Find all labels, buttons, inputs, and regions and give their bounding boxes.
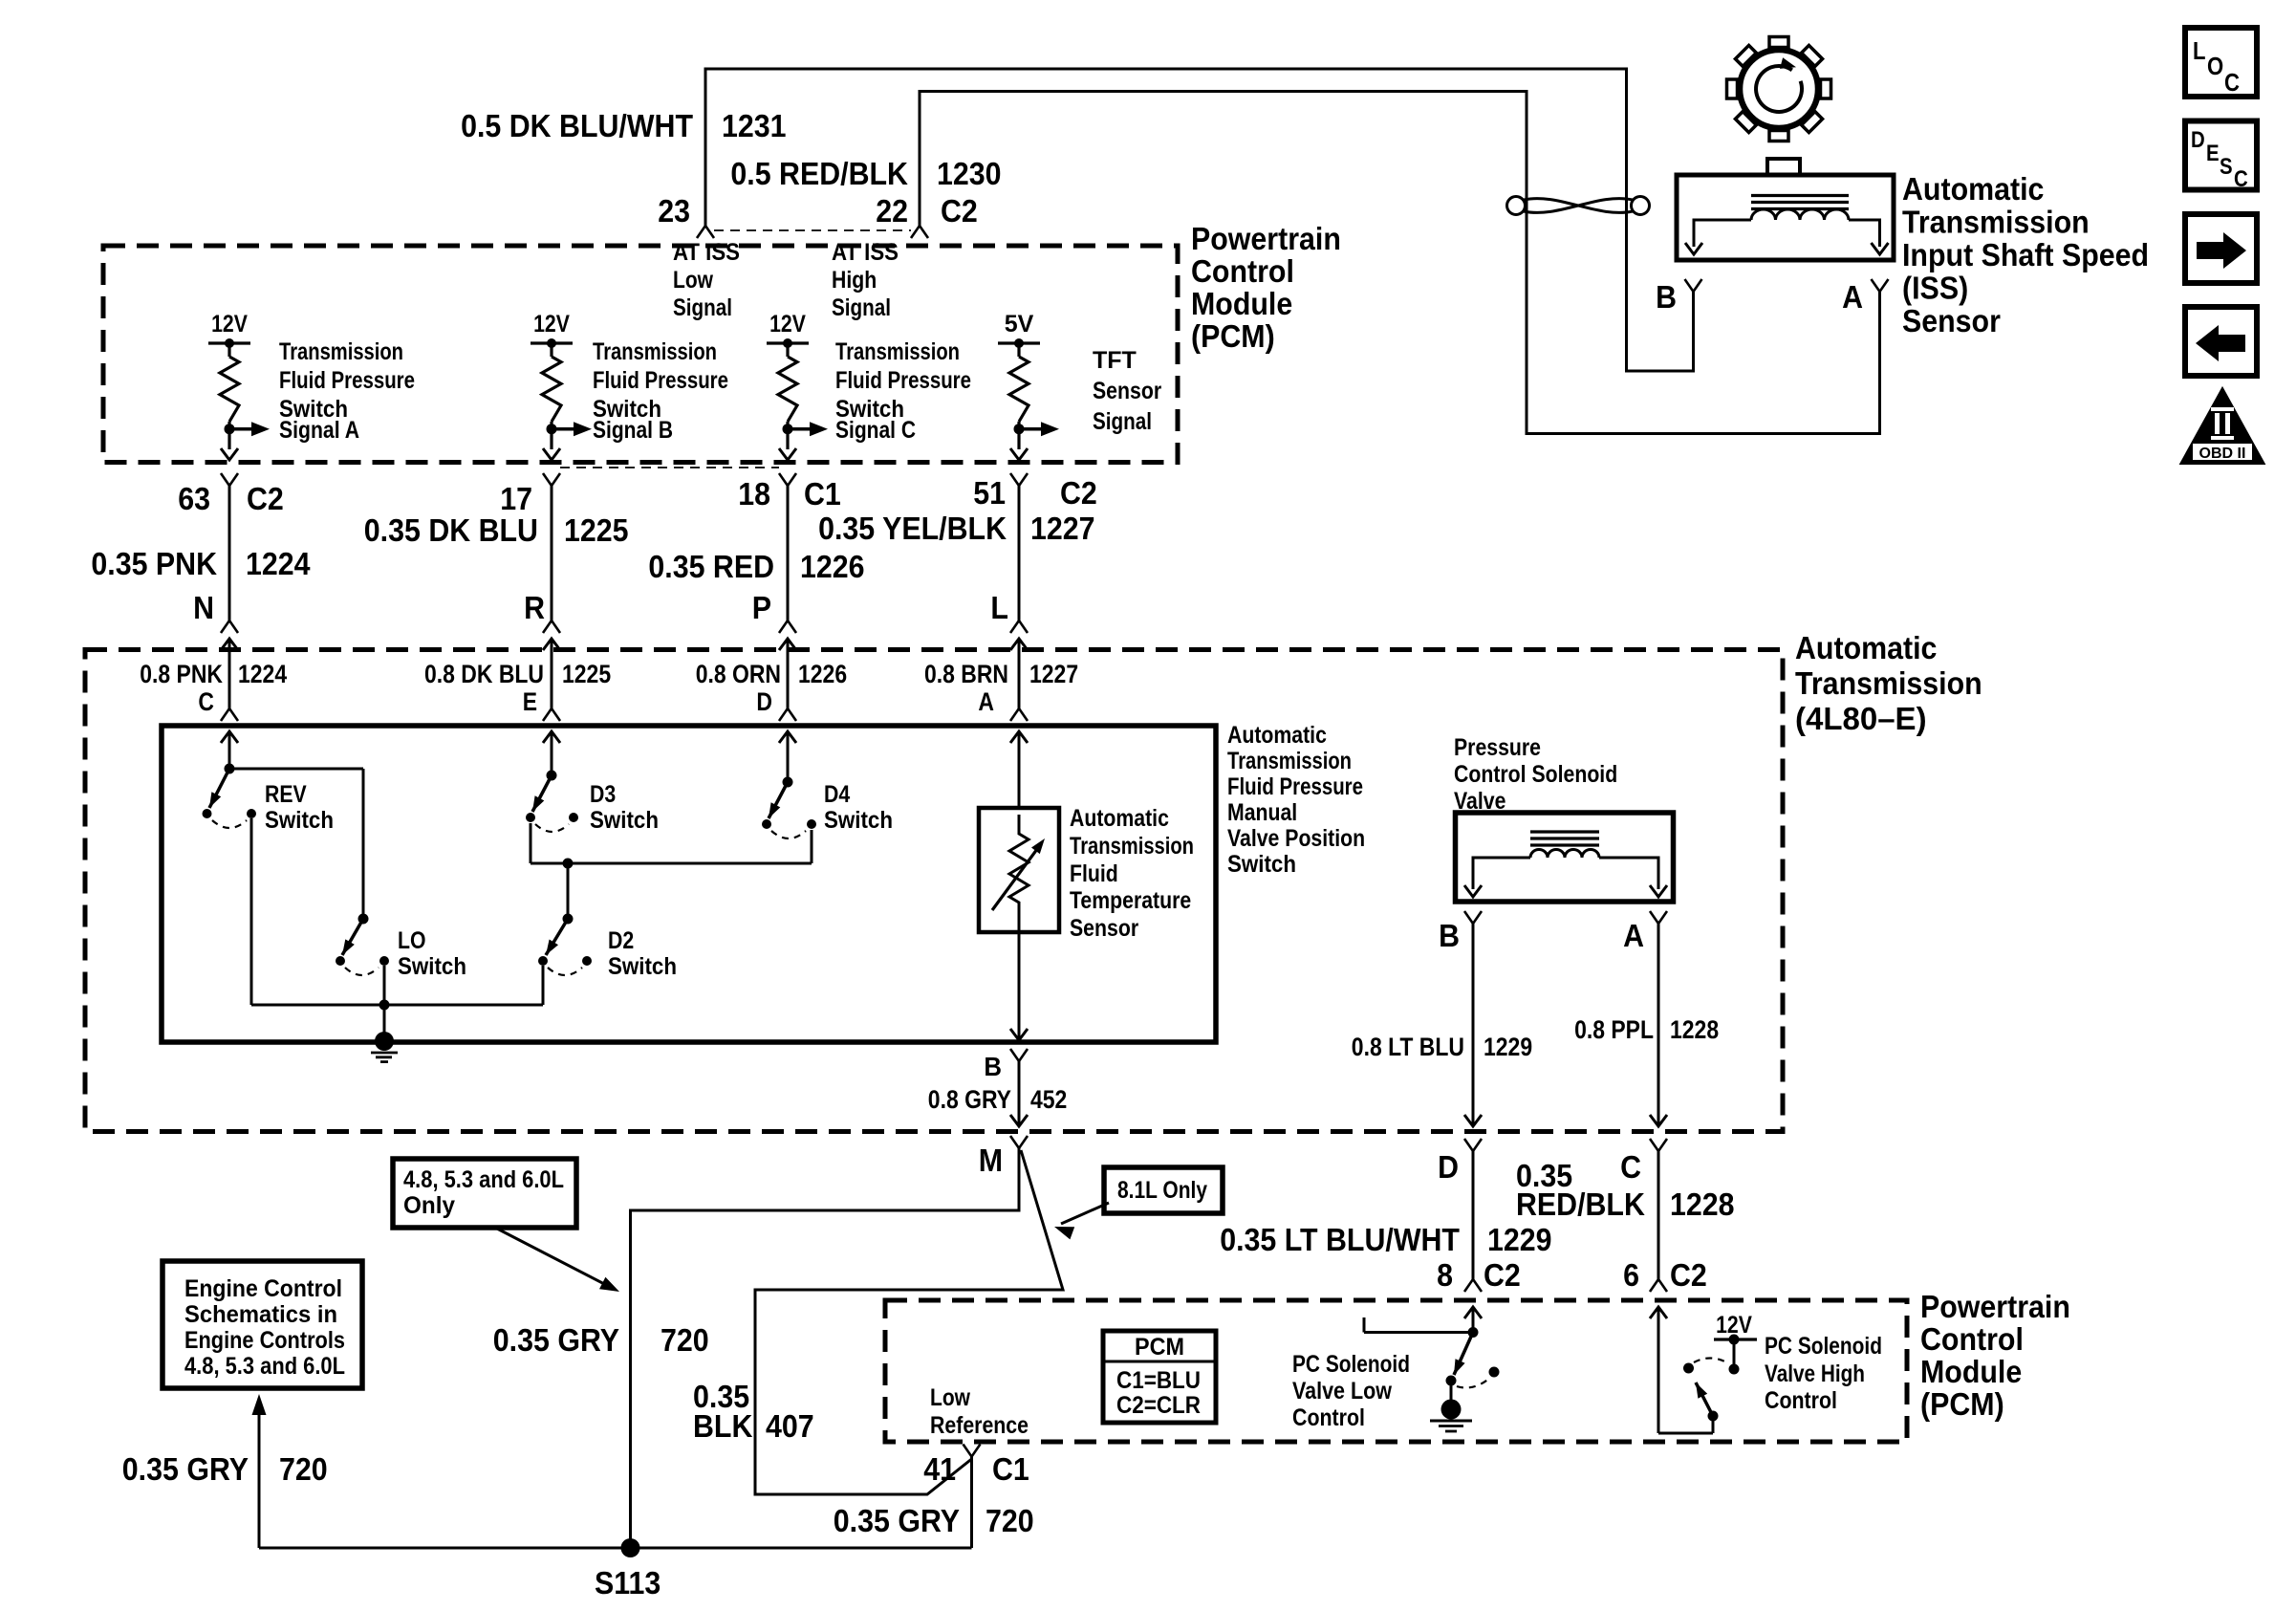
svg-text:M: M (979, 1143, 1003, 1178)
svg-text:BLK: BLK (693, 1408, 753, 1444)
icon arrow right (2185, 214, 2257, 283)
Automatic Transmission (4L80-E) box (85, 650, 1783, 1132)
svg-text:Transmission: Transmission (1227, 748, 1352, 774)
svg-text:High: High (832, 267, 877, 294)
svg-text:0.35 GRY: 0.35 GRY (493, 1322, 619, 1358)
connector arrow into transmission (221, 639, 238, 650)
svg-text:(ISS): (ISS) (1902, 271, 1968, 306)
svg-text:Module: Module (1920, 1354, 2022, 1389)
connector fork pin 23 (697, 226, 714, 238)
ground G2 (PCM) (1441, 1400, 1462, 1420)
PCSV core bars (1530, 830, 1599, 833)
svg-text:0.5 DK BLU/WHT: 0.5 DK BLU/WHT (461, 108, 693, 143)
svg-text:Automatic: Automatic (1070, 805, 1169, 832)
svg-text:12V: 12V (211, 311, 248, 337)
wire D2 contact down (542, 966, 545, 1005)
connector fork C (1650, 1139, 1667, 1151)
svg-text:0.35 YEL/BLK: 0.35 YEL/BLK (818, 511, 1007, 546)
svg-text:L: L (2193, 36, 2206, 65)
svg-text:AT ISS: AT ISS (673, 239, 740, 266)
svg-text:1229: 1229 (1484, 1033, 1532, 1061)
svg-text:12V: 12V (769, 311, 806, 337)
svg-text:Engine Control: Engine Control (184, 1275, 342, 1302)
connector arrow inside switch box (543, 731, 560, 743)
svg-text:407: 407 (766, 1408, 814, 1444)
svg-text:Transmission: Transmission (1070, 833, 1194, 860)
wire 0.8 GRY 452 (1018, 1061, 1021, 1126)
svg-text:P: P (752, 590, 771, 625)
ISS sensor coil L1 (1751, 209, 1849, 220)
svg-text:Signal: Signal (832, 294, 891, 321)
svg-text:Only: Only (403, 1192, 455, 1219)
svg-text:Automatic: Automatic (1902, 171, 2044, 207)
PCM connector legend box (1103, 1331, 1216, 1423)
junction dot D3 bus (563, 859, 574, 869)
wire bus to D2 (567, 863, 570, 919)
svg-text:N: N (193, 590, 214, 625)
svg-text:1226: 1226 (798, 660, 847, 688)
svg-text:RED/BLK: RED/BLK (1516, 1186, 1645, 1222)
svg-text:0.8 DK BLU: 0.8 DK BLU (424, 660, 544, 688)
svg-text:1227: 1227 (1029, 660, 1078, 688)
svg-text:Sensor: Sensor (1093, 378, 1161, 404)
svg-text:Automatic: Automatic (1227, 722, 1327, 749)
wire 41 to S113 (970, 1457, 973, 1549)
wire D to PCM (1472, 1151, 1475, 1279)
svg-text:Valve Low: Valve Low (1292, 1378, 1392, 1404)
connector pins 17 / N-row wire (543, 473, 560, 486)
svg-text:B: B (1656, 279, 1677, 315)
wire TFT to box bottom (1018, 925, 1021, 1040)
junction dot bottom bus (379, 1000, 390, 1011)
ISS sensor magnet stub (1767, 159, 1800, 175)
svg-text:Module: Module (1191, 286, 1292, 321)
svg-text:0.8 ORN: 0.8 ORN (696, 660, 781, 688)
svg-text:1227: 1227 (1030, 511, 1095, 546)
svg-text:720: 720 (986, 1503, 1034, 1538)
icon arrow left (2185, 307, 2257, 376)
svg-text:Switch: Switch (398, 953, 466, 980)
svg-text:A: A (1623, 918, 1644, 953)
svg-text:1230: 1230 (937, 156, 1002, 191)
svg-text:Control Solenoid: Control Solenoid (1454, 761, 1617, 788)
arrow from 4.8 note box (497, 1229, 612, 1288)
wire TFT top (1018, 731, 1021, 808)
twisted pair symbol (1507, 197, 1526, 215)
wire M to 41 C1 (8.1L only path) (755, 1150, 1063, 1494)
svg-text:4.8, 5.3 and 6.0L: 4.8, 5.3 and 6.0L (184, 1353, 345, 1380)
connector fork PCSV B (1464, 911, 1482, 924)
wire M to S113 (0.35 GRY 720) (631, 1148, 1020, 1548)
svg-text:S113: S113 (595, 1565, 661, 1600)
svg-text:A: A (1842, 279, 1863, 315)
svg-text:Low: Low (673, 267, 713, 294)
svg-text:1228: 1228 (1670, 1015, 1719, 1044)
svg-text:Signal C: Signal C (835, 417, 916, 444)
svg-text:Fluid Pressure: Fluid Pressure (1227, 773, 1363, 800)
svg-text:0.35 GRY: 0.35 GRY (834, 1503, 960, 1538)
svg-text:D2: D2 (608, 927, 634, 954)
svg-text:Transmission: Transmission (593, 338, 717, 365)
svg-text:Fluid: Fluid (1070, 860, 1118, 887)
svg-text:Reference: Reference (930, 1412, 1029, 1439)
svg-text:1231: 1231 (722, 108, 787, 143)
svg-text:0.35 RED: 0.35 RED (648, 549, 774, 584)
svg-text:1225: 1225 (562, 660, 611, 688)
svg-text:D: D (2191, 127, 2205, 153)
thin dashed connector line C2 (pins 23-22) (714, 229, 911, 231)
svg-text:Signal: Signal (673, 294, 732, 321)
connector arrow inside switch box (221, 731, 238, 743)
svg-text:0.5 RED/BLK: 0.5 RED/BLK (730, 156, 908, 191)
splice S113 (621, 1538, 640, 1557)
svg-text:Valve Position: Valve Position (1227, 825, 1365, 852)
switch PC solenoid valve high control (1714, 1338, 1757, 1340)
svg-text:720: 720 (661, 1322, 709, 1358)
svg-text:Powertrain: Powertrain (1191, 221, 1341, 256)
PCSV leads (1473, 858, 1530, 889)
svg-text:Control: Control (1292, 1404, 1365, 1431)
switch REV (228, 731, 231, 769)
svg-text:(PCM): (PCM) (1920, 1386, 2004, 1422)
note box Engine Control Schematics (162, 1261, 362, 1388)
svg-text:4.8, 5.3 and 6.0L: 4.8, 5.3 and 6.0L (403, 1166, 564, 1193)
wire S113 bus (259, 1547, 972, 1550)
svg-text:1224: 1224 (238, 660, 287, 688)
connector fork B (TFT out) (1010, 1049, 1028, 1061)
svg-text:8: 8 (1437, 1257, 1453, 1293)
wire REV junction to LO (229, 768, 363, 771)
svg-text:51: 51 (973, 475, 1006, 511)
svg-text:1224: 1224 (246, 546, 311, 581)
svg-text:C2: C2 (247, 481, 284, 516)
note box 8.1L Only (1104, 1167, 1223, 1213)
svg-text:41: 41 (923, 1451, 956, 1487)
wire D4 contact down (811, 830, 813, 863)
svg-text:0.35 PNK: 0.35 PNK (91, 546, 217, 581)
svg-text:Temperature: Temperature (1070, 887, 1191, 914)
svg-text:OBD II: OBD II (2199, 446, 2246, 462)
svg-text:C2: C2 (1484, 1257, 1521, 1293)
svg-text:0.8 LT BLU: 0.8 LT BLU (1352, 1033, 1464, 1061)
svg-text:TFT: TFT (1093, 347, 1137, 374)
svg-text:Control: Control (1920, 1321, 2024, 1357)
svg-text:C1=BLU: C1=BLU (1116, 1367, 1201, 1394)
wire low control to ground (1450, 1385, 1453, 1404)
PCM bottom box (Powertrain Control Module) (885, 1300, 1907, 1442)
svg-text:452: 452 (1030, 1085, 1067, 1114)
svg-text:S: S (2220, 154, 2233, 180)
svg-text:12V: 12V (533, 311, 570, 337)
switch D2 (563, 914, 574, 925)
connector fork pin 22 (911, 226, 928, 238)
svg-text:E: E (2206, 141, 2220, 166)
connector pins 51 / N-row wire (1010, 473, 1028, 486)
svg-text:Fluid Pressure: Fluid Pressure (593, 367, 728, 394)
svg-text:Signal A: Signal A (279, 417, 359, 444)
svg-text:0.8 PPL: 0.8 PPL (1574, 1015, 1654, 1044)
switch D4 (787, 731, 790, 782)
svg-text:C: C (198, 687, 214, 716)
svg-text:Switch: Switch (824, 807, 893, 834)
PCSV coil L2 (1530, 850, 1599, 859)
ground G1 (375, 1032, 394, 1051)
ISS sensor internal leads (1694, 220, 1751, 247)
svg-text:O: O (2207, 52, 2223, 80)
svg-text:L: L (990, 590, 1008, 625)
manual valve position switch box (162, 726, 1216, 1042)
svg-text:1225: 1225 (564, 512, 629, 548)
svg-text:A: A (978, 687, 994, 716)
svg-text:Transmission: Transmission (1902, 205, 2090, 240)
svg-text:B: B (1439, 918, 1460, 953)
svg-text:0.35 DK BLU: 0.35 DK BLU (364, 512, 538, 548)
tone wheel (gear icon) (1740, 50, 1818, 128)
connector arrow into transmission (779, 639, 796, 650)
wire D3 contact to bus (530, 823, 532, 863)
svg-text:Valve High: Valve High (1765, 1361, 1865, 1387)
svg-text:D: D (756, 687, 772, 716)
svg-text:LO: LO (398, 927, 426, 954)
svg-text:63: 63 (178, 481, 210, 516)
svg-text:C2: C2 (1060, 475, 1097, 511)
connector fork D (1464, 1139, 1482, 1151)
svg-text:Input Shaft Speed: Input Shaft Speed (1902, 237, 2149, 272)
switch LO (358, 914, 369, 925)
thin dashed connector line C1 (pins 17-18) (560, 467, 779, 468)
svg-text:0.8 BRN: 0.8 BRN (924, 660, 1008, 688)
svg-text:Engine Controls: Engine Controls (184, 1327, 345, 1354)
arrow from 8.1L note box (1061, 1203, 1109, 1224)
svg-text:E: E (523, 687, 537, 716)
svg-text:Switch: Switch (265, 807, 334, 834)
svg-text:1228: 1228 (1670, 1186, 1735, 1222)
wire LO contact down (383, 966, 386, 1005)
svg-text:Switch: Switch (1227, 851, 1296, 878)
svg-text:C2: C2 (941, 193, 978, 229)
connector arrow inside switch box (1010, 731, 1028, 743)
svg-text:Schematics in: Schematics in (184, 1301, 337, 1328)
svg-text:17: 17 (500, 481, 532, 516)
svg-text:Switch: Switch (608, 953, 677, 980)
svg-text:Powertrain: Powertrain (1920, 1289, 2070, 1324)
svg-text:C2=CLR: C2=CLR (1116, 1392, 1201, 1419)
svg-text:Fluid Pressure: Fluid Pressure (279, 367, 415, 394)
svg-text:PCM: PCM (1135, 1334, 1184, 1361)
svg-text:D4: D4 (824, 781, 850, 808)
svg-text:22: 22 (876, 193, 908, 229)
wire C to PCM (1657, 1151, 1660, 1279)
connector fork ISS B (1685, 279, 1702, 292)
ISS sensor core bars (1751, 194, 1849, 197)
svg-text:Automatic: Automatic (1795, 630, 1937, 665)
svg-text:23: 23 (658, 193, 690, 229)
svg-text:AT ISS: AT ISS (832, 239, 899, 266)
switch D3 (551, 731, 553, 775)
svg-text:1229: 1229 (1487, 1222, 1552, 1257)
svg-text:Fluid Pressure: Fluid Pressure (835, 367, 971, 394)
wire 0.8 PPL 1228 (1657, 924, 1660, 1126)
connector arrow pin 6 (1650, 1307, 1667, 1318)
connector pins 18 / N-row wire (779, 473, 796, 486)
connector arrow inside switch box (779, 731, 796, 743)
switch PC solenoid valve low control (1468, 1327, 1479, 1338)
svg-text:C: C (2234, 166, 2248, 192)
svg-text:Sensor: Sensor (1902, 303, 2001, 338)
connector arrow into transmission (1010, 639, 1028, 650)
svg-text:Transmission: Transmission (1795, 665, 1982, 701)
svg-text:C1: C1 (992, 1451, 1029, 1487)
connector fork PCSV A (1650, 911, 1667, 924)
svg-text:0.8 GRY: 0.8 GRY (928, 1085, 1011, 1114)
svg-text:0.8 PNK: 0.8 PNK (140, 660, 223, 688)
svg-text:0.35 GRY: 0.35 GRY (122, 1451, 249, 1487)
svg-text:6: 6 (1623, 1257, 1639, 1293)
svg-text:Control: Control (1765, 1387, 1837, 1414)
wire REV right contact down (250, 818, 253, 1005)
icon DESC (2185, 121, 2257, 190)
svg-text:D: D (1438, 1149, 1459, 1185)
svg-text:C1: C1 (804, 476, 841, 512)
wire to engine control box (258, 1413, 261, 1548)
svg-text:D3: D3 (590, 781, 616, 808)
svg-text:0.35 LT BLU/WHT: 0.35 LT BLU/WHT (1220, 1222, 1460, 1257)
svg-text:(PCM): (PCM) (1191, 318, 1275, 354)
svg-text:C2: C2 (1670, 1257, 1707, 1293)
wire 0.8 LT BLU 1229 (1472, 924, 1475, 1126)
svg-text:Signal: Signal (1093, 408, 1152, 435)
svg-text:Control: Control (1191, 253, 1294, 289)
connector arrow into transmission (543, 639, 560, 650)
svg-text:Sensor: Sensor (1070, 915, 1138, 942)
wire 1230 0.5 RED/BLK (pin 22 to ISS A) (920, 92, 1880, 434)
svg-text:(4L80–E): (4L80–E) (1795, 701, 1927, 736)
svg-text:Transmission: Transmission (835, 338, 960, 365)
svg-text:Signal B: Signal B (593, 417, 673, 444)
svg-text:C: C (2224, 68, 2240, 97)
wire 1231 0.5 DK BLU/WHT (pin 23 to ISS B) (705, 69, 1694, 371)
svg-text:1226: 1226 (800, 549, 865, 584)
svg-text:REV: REV (265, 781, 307, 808)
svg-text:B: B (984, 1052, 1002, 1081)
svg-text:Transmission: Transmission (279, 338, 403, 365)
wire to ground (383, 1005, 386, 1034)
svg-text:720: 720 (279, 1451, 328, 1487)
connector fork 41 (964, 1445, 981, 1457)
svg-text:18: 18 (738, 476, 770, 512)
svg-text:PC Solenoid: PC Solenoid (1765, 1333, 1882, 1360)
icon LOC (2185, 28, 2257, 97)
pressure control solenoid valve box (1456, 813, 1674, 902)
svg-text:PC Solenoid: PC Solenoid (1292, 1351, 1410, 1378)
svg-text:R: R (524, 590, 545, 625)
svg-text:Switch: Switch (590, 807, 659, 834)
connector fork M (1010, 1136, 1028, 1148)
TFT sensor (thermistor) (979, 808, 1059, 932)
note box 4.8, 5.3 and 6.0L Only (393, 1159, 576, 1228)
svg-text:5V: 5V (1005, 311, 1034, 337)
connector fork ISS A (1872, 279, 1889, 292)
svg-text:C: C (1620, 1149, 1641, 1185)
svg-text:Manual: Manual (1227, 799, 1297, 826)
PCM top box (Powertrain Control Module) (103, 246, 1178, 463)
ISS sensor box (1677, 175, 1894, 260)
connector arrow pin 8 (1464, 1307, 1482, 1318)
wire bottom bus (251, 1004, 543, 1007)
svg-text:Low: Low (930, 1384, 970, 1411)
connector pins 63 / N-row wire (221, 473, 238, 486)
svg-text:Pressure: Pressure (1454, 734, 1541, 761)
svg-text:8.1L Only: 8.1L Only (1117, 1177, 1207, 1204)
icon OBD II triangle (2182, 390, 2263, 463)
